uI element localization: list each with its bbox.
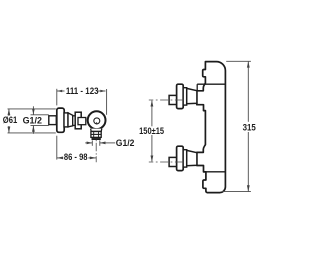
- dimension 150±15 line lower segment with down arrow: [151, 135, 153, 161]
- outlet neck: [91, 129, 102, 132]
- dimension 315 extension line top: [226, 60, 251, 62]
- top inlet flange: [177, 84, 184, 108]
- tapered cone: [68, 113, 73, 127]
- outlet nut divider: [91, 133, 101, 135]
- knob inner circle: [94, 118, 100, 124]
- svg-text:G1/2: G1/2: [116, 138, 135, 148]
- outlet centerline: [95, 140, 97, 162]
- outlet nut: [91, 132, 101, 138]
- bottom inlet collar: [183, 150, 187, 167]
- Ø61 arrow up: [8, 109, 10, 116]
- svg-text:150±15: 150±15: [139, 126, 164, 136]
- bridge block: [78, 118, 86, 125]
- svg-text:86 - 98: 86 - 98: [64, 152, 88, 162]
- Ø61 extension line top: [8, 108, 56, 110]
- bottom inlet flange: [177, 146, 184, 170]
- outlet nut facets: [94, 132, 99, 138]
- G1/2 (supply) arrow down from above: [32, 106, 34, 114]
- top inlet boss edge: [196, 84, 198, 90]
- G1/2 outlet extension tick left: [91, 140, 93, 145]
- bottom inlet nipple: [169, 157, 177, 166]
- supply nipple: [49, 116, 57, 125]
- knob centerline tick: [96, 122, 98, 124]
- body joint line upper: [197, 83, 225, 85]
- dimension 315 extension line bottom: [222, 191, 251, 193]
- wall flange escutcheon: [57, 108, 64, 132]
- dimension 315 line lower segment with down arrow: [247, 132, 249, 191]
- dimension 150±15 line upper segment with up arrow: [151, 101, 153, 127]
- top inlet centerline: [149, 99, 184, 101]
- svg-text:315: 315: [243, 123, 256, 133]
- dimension 111-123 extension line right: [106, 89, 108, 115]
- dimension 111-123 line left segment with arrow: [57, 90, 65, 92]
- svg-text:Ø61: Ø61: [3, 115, 18, 125]
- svg-text:111 - 123: 111 - 123: [66, 86, 99, 96]
- G1/2 outlet extension tick right: [99, 140, 101, 145]
- dimension 111-123 line right segment with arrow: [97, 90, 106, 92]
- G1/2 (supply) extension line top: [31, 114, 49, 116]
- Ø61 extension line bottom: [8, 132, 56, 134]
- G1/2 outlet dim line left with arrow: [85, 142, 92, 144]
- top inlet nipple: [169, 95, 177, 104]
- top inlet cone: [187, 88, 197, 103]
- dimension 86-98 line right segment with arrow: [88, 157, 96, 159]
- dimension 315 line upper segment with up arrow: [247, 62, 249, 122]
- dimension 111-123 extension line left: [56, 89, 58, 106]
- body joint line lower: [206, 171, 225, 173]
- outlet tip: [92, 137, 100, 139]
- G1/2 (supply) extension line bottom: [31, 124, 49, 126]
- knob circle: [88, 111, 106, 129]
- mixer body outline: [197, 62, 226, 193]
- bottom inlet centerline: [149, 161, 184, 163]
- top inlet collar: [183, 88, 187, 105]
- G1/2 (supply) arrow up from below: [32, 126, 34, 134]
- valve housing: [75, 112, 81, 129]
- dimension 86-98 extension line: [56, 136, 58, 160]
- svg-text:G1/2: G1/2: [23, 115, 42, 125]
- G1/2 outlet dim line right with arrow: [100, 142, 115, 144]
- Ø61 arrow down: [8, 126, 10, 133]
- dimension 86-98 line left segment with arrow: [57, 157, 63, 159]
- bottom inlet cone: [187, 150, 197, 165]
- flange collar: [64, 113, 68, 127]
- neck: [73, 116, 76, 126]
